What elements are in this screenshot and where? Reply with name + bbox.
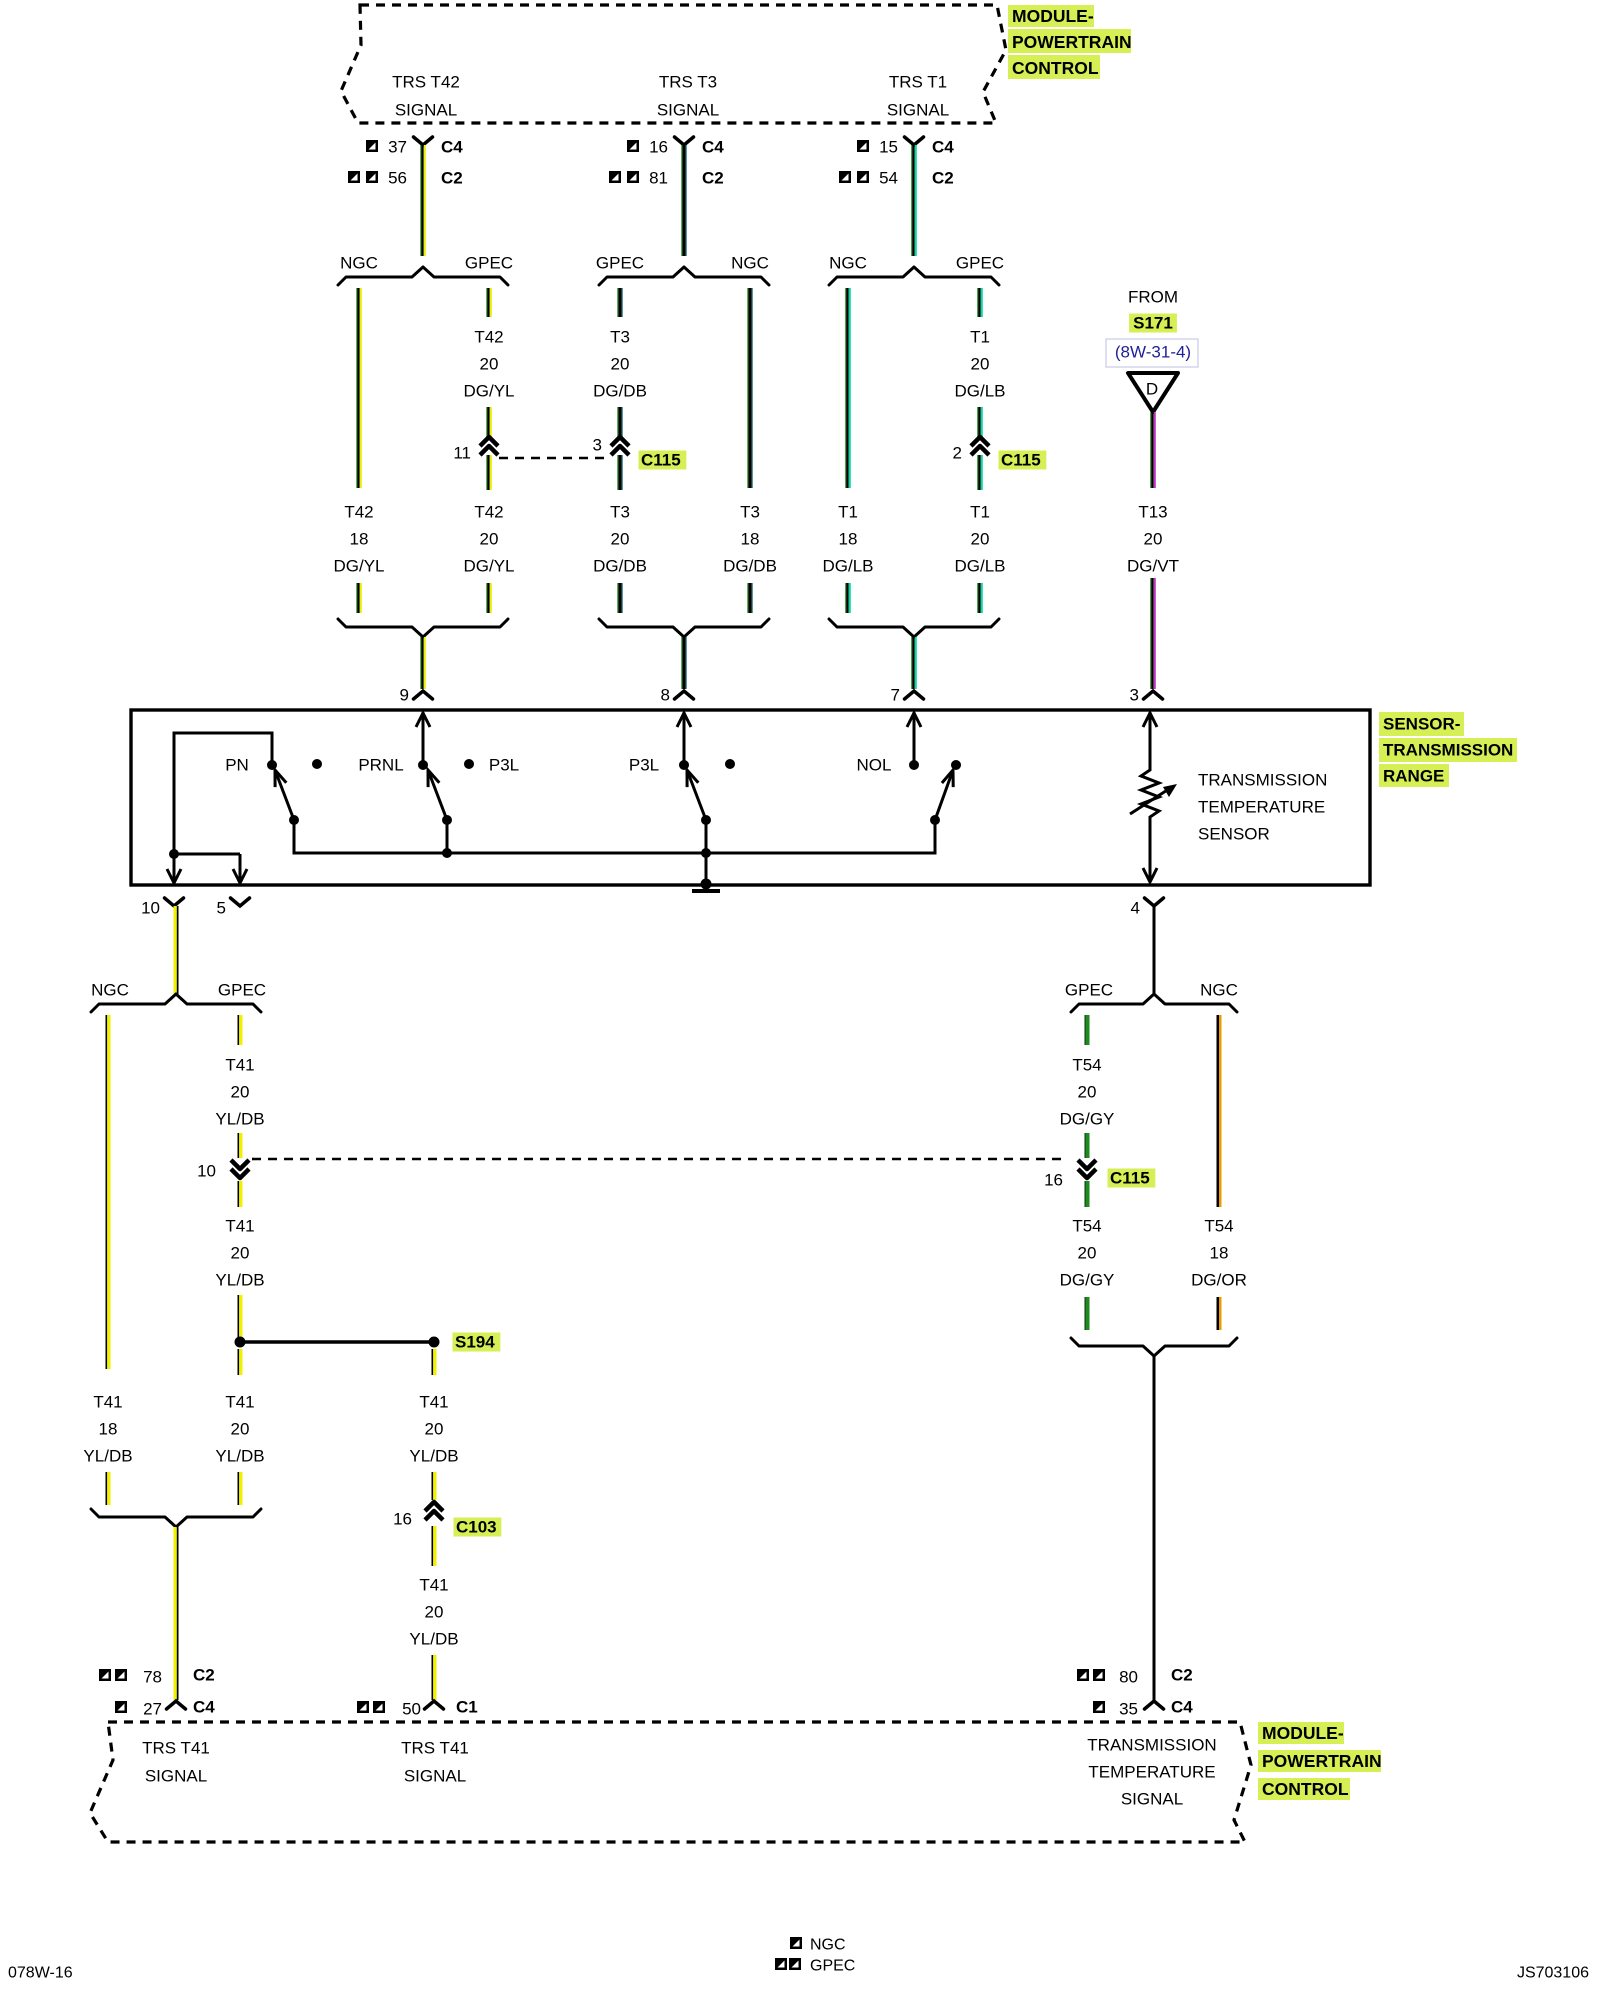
svg-text:SIGNAL: SIGNAL (657, 101, 719, 120)
wire label T42 20 DG/YL (463, 328, 514, 401)
svg-text:20: 20 (480, 355, 499, 374)
label NGC (T42 branch) (340, 254, 378, 273)
svg-text:T3: T3 (740, 503, 760, 522)
label: TRANSMISSION TEMPERATURE SENSOR (1198, 771, 1327, 844)
svg-text:8: 8 (661, 686, 670, 705)
bus junction dot under PRNL (442, 848, 452, 858)
svg-text:PRNL: PRNL (358, 756, 403, 775)
wire T3 to sensor pin 8 (681, 637, 686, 689)
bus drop from PRNL pivot (446, 820, 449, 853)
svg-text:T41: T41 (419, 1576, 448, 1595)
junction dot at pin 10 branch (169, 849, 179, 859)
sensor connector fork pin 4 (below box) (1145, 898, 1164, 906)
svg-text:2: 2 (953, 444, 962, 463)
svg-text:TRS T41: TRS T41 (401, 1739, 469, 1758)
svg-text:078W-16: 078W-16 (8, 1965, 73, 1982)
svg-text:DG/GY: DG/GY (1060, 1271, 1115, 1290)
connector C115 cavity 3 (inline) (611, 437, 629, 455)
svg-text:DG/LB: DG/LB (954, 557, 1005, 576)
svg-text:20: 20 (231, 1083, 250, 1102)
svg-text:C1: C1 (456, 1698, 478, 1717)
svg-text:C2: C2 (193, 1666, 215, 1685)
wire T1 20 DG/LB (GPEC stub above label) (977, 288, 983, 317)
svg-text:DG/LB: DG/LB (822, 557, 873, 576)
brace: T42 NGC/GPEC variants merge (338, 619, 508, 637)
component box: Transmission Range Sensor (solid outline) (131, 710, 1370, 885)
svg-text:SIGNAL: SIGNAL (395, 101, 457, 120)
svg-text:MODULE-: MODULE- (1262, 1723, 1344, 1743)
pin number 2 at C115 (953, 444, 962, 463)
NGC marker square (pin 35 C4) (1093, 1701, 1105, 1713)
svg-text:T54: T54 (1072, 1056, 1101, 1075)
wire T13 20 DG/VT (upper segment) (1150, 412, 1156, 488)
connector name C2 (702, 169, 724, 188)
connector name C2 (441, 169, 463, 188)
wire transmission temperature signal to PCM (black) (1153, 1356, 1156, 1700)
wire T3 18 DG/DB (stub above merge brace) (747, 583, 752, 613)
brace: T3 NGC/GPEC variants merge (599, 619, 769, 637)
contact arm from pin 8 (P3L) (677, 712, 691, 765)
svg-text:T3: T3 (610, 328, 630, 347)
pin number 10 at C115 (197, 1162, 216, 1181)
connector name C1 (456, 1698, 478, 1717)
pin number 80 (1119, 1668, 1138, 1687)
wire label T41 20 YL/DB (215, 1393, 264, 1466)
svg-text:DG/YL: DG/YL (463, 382, 514, 401)
wire T54 20 DG/GY (stub above merge) (1085, 1297, 1090, 1330)
svg-text:SENSOR: SENSOR (1198, 825, 1270, 844)
wire label T41 20 YL/DB (below C103) (409, 1576, 458, 1649)
GPEC marker squares (pin 50 C1) (357, 1701, 385, 1713)
svg-text:20: 20 (1144, 530, 1163, 549)
svg-text:DG/GY: DG/GY (1060, 1110, 1115, 1129)
svg-text:DG/YL: DG/YL (333, 557, 384, 576)
svg-text:DG/OR: DG/OR (1191, 1271, 1247, 1290)
pin number 3 at C115 (593, 436, 602, 455)
wire T3 20 DG/DB (to connector C115) (617, 407, 622, 437)
label GPEC (T1 branch) (956, 254, 1004, 273)
wire T1 20 DG/LB (below connector C115) (977, 455, 983, 490)
svg-text:20: 20 (971, 530, 990, 549)
case ground termination bar (692, 879, 720, 894)
svg-text:SIGNAL: SIGNAL (1121, 1790, 1183, 1809)
label: TRS T1 SIGNAL (887, 73, 949, 120)
wire T41 20 YL/DB (stub above merge) (238, 1472, 243, 1505)
svg-text:11: 11 (453, 444, 471, 463)
svg-text:DG/YL: DG/YL (463, 557, 514, 576)
svg-text:PN: PN (225, 756, 249, 775)
wire T54 18 DG/OR (NGC branch, long) (1217, 1015, 1222, 1207)
wire T1 18 DG/LB (stub above merge brace) (845, 583, 851, 613)
label NGC (T54 branch) (1200, 981, 1238, 1000)
NGC marker square (pin 16 C4) (627, 140, 639, 152)
wire T3 18 DG/DB (NGC branch) (747, 288, 752, 488)
svg-text:(8W-31-4): (8W-31-4) (1115, 343, 1191, 362)
wire label T1 20 DG/LB (954, 503, 1005, 576)
wire label T42 18 DG/YL (333, 503, 384, 576)
brace: T42 wire splits to NGC / GPEC variants (338, 267, 508, 285)
svg-text:DG/DB: DG/DB (723, 557, 777, 576)
wire TRS T3 signal from PCM (DG/DB) (681, 145, 686, 256)
svg-text:37: 37 (388, 138, 407, 157)
wire T42 18 DG/YL (stub above merge brace) (356, 583, 362, 613)
sensor connector fork pin 9 (414, 691, 433, 699)
svg-text:20: 20 (611, 355, 630, 374)
svg-text:7: 7 (891, 686, 900, 705)
contact arm from pin 7 (NOL) (907, 712, 921, 765)
svg-text:POWERTRAIN: POWERTRAIN (1262, 1751, 1382, 1771)
svg-text:C4: C4 (1171, 1698, 1193, 1717)
svg-text:TEMPERATURE: TEMPERATURE (1198, 798, 1325, 817)
connector designator C103 (454, 1518, 502, 1537)
pin 15 C4 connector fork at PCM (905, 137, 924, 145)
pin number 16 at C103 (393, 1510, 412, 1529)
dashed link between C115 halves (pins 11 and 3) (499, 457, 609, 460)
switch position label NOL (857, 756, 892, 775)
svg-text:YL/DB: YL/DB (215, 1110, 264, 1129)
svg-text:TRS T42: TRS T42 (392, 73, 460, 92)
wire T1 20 DG/LB (stub above merge brace) (977, 583, 983, 613)
pin number 27 (143, 1700, 162, 1719)
label: MODULE-POWERTRAIN CONTROL (top right, highlighted) (1008, 5, 1132, 79)
svg-text:P3L: P3L (629, 756, 659, 775)
wire T42 20 DG/YL (below connector C115) (486, 455, 492, 490)
connector name C4 (702, 138, 724, 157)
switch blade NOL (points to open contact) (930, 770, 953, 825)
wire T3 20 DG/DB (stub above merge brace) (617, 583, 622, 613)
svg-text:YL/DB: YL/DB (215, 1447, 264, 1466)
svg-text:20: 20 (480, 530, 499, 549)
connector designator C115 (639, 451, 687, 470)
svg-text:20: 20 (611, 530, 630, 549)
svg-text:10: 10 (141, 899, 160, 918)
pin number 56 (388, 169, 407, 188)
svg-text:NOL: NOL (857, 756, 892, 775)
wire T41 18 YL/DB (NGC branch, long) (106, 1015, 111, 1369)
label NGC (T41 branch) (91, 981, 129, 1000)
svg-text:D: D (1146, 380, 1158, 399)
brace: T1 NGC/GPEC variants merge (829, 619, 999, 637)
brace: T3 wire splits to GPEC / NGC variants (599, 267, 769, 285)
svg-text:81: 81 (649, 169, 668, 188)
faint box around page reference (1106, 339, 1198, 367)
svg-text:54: 54 (879, 169, 898, 188)
svg-text:CONTROL: CONTROL (1262, 1779, 1349, 1799)
switch position label P3L (left) (489, 756, 519, 775)
switch contact dot NOL (pin 7) (909, 760, 919, 770)
wire label T3 20 DG/DB (593, 328, 647, 401)
footer sheet number 078W-16 (8, 1965, 73, 1982)
svg-text:S171: S171 (1133, 314, 1173, 333)
label: TRS T41 SIGNAL (middle) (401, 1739, 469, 1786)
connector name C4 (1171, 1698, 1193, 1717)
svg-text:DG/DB: DG/DB (593, 557, 647, 576)
wire T41 20 YL/DB (below C103) (432, 1526, 437, 1566)
svg-text:16: 16 (393, 1510, 412, 1529)
svg-text:C115: C115 (1001, 451, 1041, 470)
switch position label PRNL (358, 756, 403, 775)
sensor connector fork pin 3 (1144, 691, 1163, 699)
svg-text:78: 78 (143, 1668, 162, 1687)
internal wire: pin 10/5 common to PN contact (174, 733, 272, 854)
svg-text:T42: T42 (344, 503, 373, 522)
PCM connector fork pin 50 (425, 1701, 444, 1709)
svg-text:20: 20 (971, 355, 990, 374)
svg-text:GPEC: GPEC (956, 254, 1004, 273)
pin number 35 (1119, 1700, 1138, 1719)
pin number 16 at C115 (1044, 1171, 1063, 1190)
wire T54 18 DG/OR (stub above merge) (1217, 1297, 1222, 1330)
wire TRS T1 signal from PCM (DG/LB) (911, 145, 917, 256)
label: SENSOR-TRANSMISSION RANGE (highlighted) (1379, 712, 1517, 787)
svg-text:18: 18 (1210, 1244, 1229, 1263)
svg-text:GPEC: GPEC (218, 981, 266, 1000)
svg-text:SIGNAL: SIGNAL (145, 1767, 207, 1786)
switch contact dot P3L (pin 8) (679, 760, 689, 770)
pin 16 C4 connector fork at PCM (675, 137, 694, 145)
svg-text:56: 56 (388, 169, 407, 188)
wire label T54 18 DG/OR (1191, 1217, 1247, 1290)
svg-text:FROM: FROM (1128, 288, 1178, 307)
connector name C4 (441, 138, 463, 157)
svg-text:POWERTRAIN: POWERTRAIN (1012, 32, 1132, 52)
svg-text:GPEC: GPEC (465, 254, 513, 273)
svg-text:NGC: NGC (91, 981, 129, 1000)
label NGC (T1 branch) (829, 254, 867, 273)
module box: MODULE-POWERTRAIN CONTROL (top, dashed outline) (341, 5, 1006, 123)
svg-text:C115: C115 (641, 451, 681, 470)
label GPEC (T54 branch) (1065, 981, 1113, 1000)
footer document number JS703106 (1517, 1965, 1589, 1982)
splice S194 junction wire (235, 1337, 440, 1348)
brace: T54 wire splits to GPEC / NGC variants (1071, 994, 1237, 1012)
splice designator S194 (453, 1333, 501, 1352)
legend NGC marker square (790, 1937, 802, 1949)
dashed link between C115 halves (pins 10 and 16) (252, 1158, 1062, 1161)
connector name C2 (1171, 1666, 1193, 1685)
brace: T41 wire splits to NGC / GPEC variants (91, 994, 261, 1012)
svg-text:C4: C4 (193, 1698, 215, 1717)
switch blade P3L (687, 770, 711, 825)
arrow down to pin 5 (233, 854, 247, 883)
svg-text:TRANSMISSION: TRANSMISSION (1198, 771, 1327, 790)
wire T54 20 DG/GY (below C115) (1085, 1181, 1090, 1207)
module box: MODULE-POWERTRAIN CONTROL (bottom, dashed outline) (90, 1722, 1251, 1842)
splice reference S171 (1129, 314, 1177, 333)
svg-text:20: 20 (231, 1244, 250, 1263)
GPEC marker squares (pin 56 C2) (348, 171, 378, 183)
svg-text:C4: C4 (932, 138, 954, 157)
open contact dot right of PN (312, 759, 322, 769)
switch contact dot PRNL (pin 9) (418, 760, 428, 770)
legend label NGC (810, 1937, 846, 1954)
svg-text:DG/VT: DG/VT (1127, 557, 1179, 576)
label: TRANSMISSION TEMPERATURE SIGNAL (1087, 1736, 1216, 1809)
svg-text:TRANSMISSION: TRANSMISSION (1087, 1736, 1216, 1755)
svg-text:T41: T41 (225, 1217, 254, 1236)
svg-text:T13: T13 (1138, 503, 1167, 522)
svg-text:16: 16 (1044, 1171, 1063, 1190)
svg-text:CONTROL: CONTROL (1012, 58, 1099, 78)
svg-text:15: 15 (879, 138, 898, 157)
svg-text:20: 20 (1078, 1083, 1097, 1102)
internal wire: junction to pin 5 (174, 853, 240, 856)
connector name C2 (193, 1666, 215, 1685)
svg-text:16: 16 (649, 138, 668, 157)
wire T41 20 YL/DB (below splice, left) (238, 1349, 243, 1375)
pin number 7 (891, 686, 900, 705)
wire label T41 20 YL/DB (215, 1056, 264, 1129)
PCM connector fork pin 35/80 (1145, 1701, 1164, 1709)
svg-text:T41: T41 (419, 1393, 448, 1412)
pin number 78 (143, 1668, 162, 1687)
svg-text:10: 10 (197, 1162, 216, 1181)
svg-text:YL/DB: YL/DB (83, 1447, 132, 1466)
wire T41 20 YL/DB (to C115) (238, 1133, 243, 1158)
svg-text:T1: T1 (970, 503, 990, 522)
svg-text:20: 20 (1078, 1244, 1097, 1263)
svg-text:T41: T41 (225, 1393, 254, 1412)
svg-text:GPEC: GPEC (810, 1958, 855, 1975)
label: TRS T42 SIGNAL (392, 73, 460, 120)
connector C115 cavity 16 (inline) (1078, 1160, 1096, 1178)
wire T3 20 DG/DB (below connector C115) (617, 455, 622, 490)
svg-text:C2: C2 (932, 169, 954, 188)
connector name C4 (193, 1698, 215, 1717)
svg-text:5: 5 (217, 899, 226, 918)
wire T1 20 DG/LB (to connector C115) (977, 407, 983, 437)
bus drop from P3L pivot and to case ground stub (705, 820, 708, 888)
sensor connector fork pin 10 (below box) (165, 898, 184, 906)
label GPEC (T42 branch) (465, 254, 513, 273)
wire T41 20 YL/DB (GPEC stub) (238, 1015, 243, 1045)
wire T41 20 YL/DB (below C115) (238, 1181, 243, 1207)
label: TRS T41 SIGNAL (left) (142, 1739, 210, 1786)
svg-text:18: 18 (741, 530, 760, 549)
connector C115 cavity 11 (inline) (480, 437, 498, 455)
NGC marker square (pin 37 C4) (366, 140, 378, 152)
NGC marker square (pin 15 C4) (857, 140, 869, 152)
connector name C2 (932, 169, 954, 188)
connector C115 cavity 10 (inline) (231, 1160, 249, 1178)
wire T1 18 DG/LB (NGC branch) (845, 288, 851, 488)
arrow down to pin 10 (167, 854, 181, 883)
svg-text:DG/DB: DG/DB (593, 382, 647, 401)
switch blade PRNL (428, 770, 452, 825)
switch position label PN (225, 756, 249, 775)
wire T42 18 DG/YL (NGC branch) (356, 288, 362, 488)
wire label T41 20 YL/DB (splice branch) (409, 1393, 458, 1466)
label GPEC (T3 branch) (596, 254, 644, 273)
label: MODULE-POWERTRAIN CONTROL (bottom right, highlighted) (1258, 1722, 1382, 1800)
svg-text:C4: C4 (702, 138, 724, 157)
svg-text:NGC: NGC (1200, 981, 1238, 1000)
pin number 11 at C115 (453, 444, 471, 463)
wire T42 20 DG/YL (stub above merge brace) (486, 583, 492, 613)
wire from sensor pin 4 (black) (1153, 906, 1156, 995)
switch blade PN (275, 770, 299, 825)
wire TRS T41 signal to PCM (174, 1527, 179, 1700)
brace: T41 NGC/GPEC variants merge (91, 1509, 261, 1527)
svg-text:3: 3 (593, 436, 602, 455)
open contact dot right of P3L (725, 759, 735, 769)
svg-text:T3: T3 (610, 503, 630, 522)
legend GPEC marker squares (775, 1958, 801, 1970)
sensor connector fork pin 8 (675, 691, 694, 699)
svg-text:C2: C2 (1171, 1666, 1193, 1685)
svg-text:C2: C2 (702, 169, 724, 188)
wire TRS T42 signal from PCM (DG/YL) (420, 145, 426, 256)
wire label T1 20 DG/LB (954, 328, 1005, 401)
svg-text:27: 27 (143, 1700, 162, 1719)
svg-text:DG/LB: DG/LB (954, 382, 1005, 401)
svg-text:RANGE: RANGE (1383, 767, 1444, 786)
pin number 16 (649, 138, 668, 157)
svg-text:T54: T54 (1204, 1217, 1233, 1236)
svg-text:T42: T42 (474, 503, 503, 522)
pin number 5 (217, 899, 226, 918)
NGC marker square (pin 27 C4) (115, 1701, 127, 1713)
pin number 9 (400, 686, 409, 705)
wire label T13 20 DG/VT (1127, 503, 1179, 576)
wire label T54 20 DG/GY (below connector) (1060, 1217, 1115, 1290)
GPEC marker squares (pin 80 C2) (1077, 1669, 1105, 1681)
page reference (8W-31-4) (1115, 343, 1191, 362)
svg-text:T42: T42 (474, 328, 503, 347)
pin number 81 (649, 169, 668, 188)
svg-text:20: 20 (425, 1420, 444, 1439)
svg-text:NGC: NGC (810, 1937, 846, 1954)
svg-text:20: 20 (231, 1420, 250, 1439)
wire label T42 20 DG/YL (463, 503, 514, 576)
GPEC marker squares (pin 81 C2) (609, 171, 639, 183)
wire label T41 20 YL/DB (below connector) (215, 1217, 264, 1290)
wire label T3 18 DG/DB (723, 503, 777, 576)
wire T41 20 YL/DB (to splice S194) (238, 1295, 243, 1337)
svg-text:50: 50 (402, 1700, 421, 1719)
connector name C4 (932, 138, 954, 157)
svg-text:C115: C115 (1110, 1169, 1150, 1188)
connector C115 cavity 2 (inline) (971, 437, 989, 455)
svg-text:NGC: NGC (731, 254, 769, 273)
pin number 50 (402, 1700, 421, 1719)
sensor connector fork pin 7 (905, 691, 924, 699)
svg-text:T1: T1 (970, 328, 990, 347)
wire T3 20 DG/DB (GPEC stub above label) (617, 288, 622, 317)
wire T41 from sensor pin 10 (YL/DB) (174, 906, 179, 995)
svg-text:T54: T54 (1072, 1217, 1101, 1236)
wire T41 20 YL/DB (stub above C103) (432, 1472, 437, 1500)
label NGC (T3 branch) (731, 254, 769, 273)
wire TRS T41 signal to PCM (C1) (432, 1655, 437, 1700)
pin number 4 (1131, 899, 1140, 918)
pin number 3 (1130, 686, 1139, 705)
GPEC marker squares (pin 54 C2) (839, 171, 869, 183)
svg-text:NGC: NGC (340, 254, 378, 273)
GPEC marker squares (pin 78 C2) (99, 1669, 127, 1681)
svg-text:JS703106: JS703106 (1517, 1965, 1589, 1982)
svg-text:GPEC: GPEC (1065, 981, 1113, 1000)
wire label T3 20 DG/DB (593, 503, 647, 576)
legend label GPEC (810, 1958, 855, 1975)
svg-text:TRANSMISSION: TRANSMISSION (1383, 741, 1513, 760)
connector C103 cavity 16 (inline) (425, 1502, 443, 1520)
brace: T54 GPEC/NGC variants merge (1071, 1338, 1237, 1356)
svg-text:C2: C2 (441, 169, 463, 188)
open contact dot right of NOL (951, 760, 961, 770)
wire T42 to sensor pin 9 (420, 637, 426, 689)
brace: T1 wire splits to NGC / GPEC variants (829, 267, 999, 285)
